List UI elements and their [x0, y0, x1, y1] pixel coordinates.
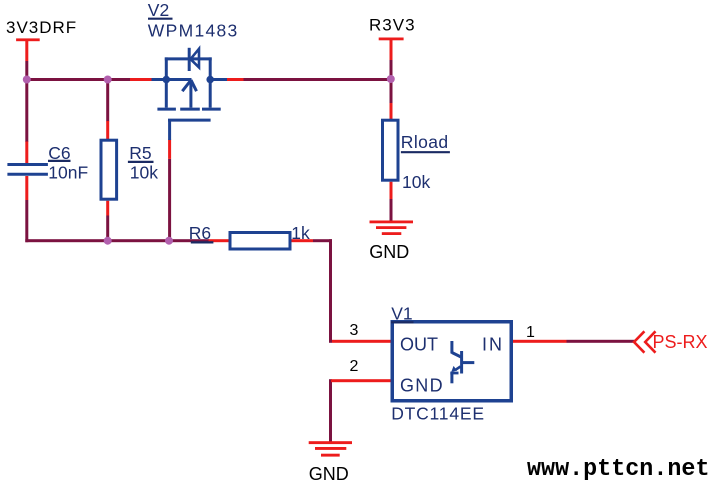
- svg-text:2: 2: [350, 358, 359, 375]
- svg-text:R5: R5: [129, 143, 151, 163]
- svg-text:10k: 10k: [402, 172, 430, 192]
- svg-text:R3V3: R3V3: [369, 16, 416, 35]
- svg-text:10nF: 10nF: [48, 163, 88, 183]
- svg-text:3V3DRF: 3V3DRF: [6, 18, 77, 37]
- svg-text:1k: 1k: [291, 223, 310, 243]
- svg-text:V2: V2: [148, 0, 169, 20]
- svg-text:R6: R6: [189, 223, 211, 243]
- svg-text:GND: GND: [309, 464, 349, 484]
- svg-text:WPM1483: WPM1483: [148, 21, 239, 41]
- svg-text:IN: IN: [482, 335, 504, 355]
- svg-text:OUT: OUT: [400, 335, 438, 355]
- svg-text:3: 3: [350, 322, 359, 339]
- svg-text:www.pttcn.net: www.pttcn.net: [527, 456, 710, 483]
- svg-text:V1: V1: [391, 304, 412, 324]
- svg-text:DTC114EE: DTC114EE: [391, 404, 485, 424]
- svg-text:Rload: Rload: [401, 132, 449, 152]
- svg-text:1: 1: [526, 324, 535, 341]
- svg-text:GND: GND: [369, 242, 409, 262]
- svg-text:PS-RX: PS-RX: [653, 332, 708, 352]
- svg-text:10k: 10k: [130, 163, 158, 183]
- svg-text:GND: GND: [400, 375, 444, 395]
